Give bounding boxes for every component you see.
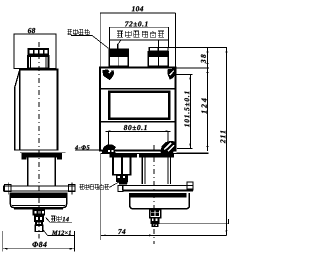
dim phi84 left extension line: [2, 231, 4, 252]
side view flange left bolt line: [7, 182, 9, 194]
dim 74 text: [118, 229, 125, 234]
right flange right tab: [187, 182, 193, 189]
dim 38 line: [207, 48, 209, 69]
right terminal inner line: [157, 56, 159, 66]
display window: [109, 92, 169, 119]
dim 101.5 bottom leader: [177, 148, 192, 150]
knob body bottom: [112, 174, 132, 176]
side view fitting mid white slots: [36, 217, 42, 220]
side view plate left end cap: [22, 153, 27, 159]
side view plate right end cap: [57, 153, 62, 159]
dim 38 arrows: [207, 48, 209, 53]
mounting hole arrow bottom-right: [161, 141, 176, 153]
74 extension line (case left edge extended): [100, 153, 102, 240]
dim 80 extension lines: [107, 131, 109, 144]
right terminal cap divider: [157, 48, 159, 52]
dim 80 line: [106, 130, 171, 132]
main column left wall outer: [141, 158, 143, 184]
side view housing black top band: [10, 193, 67, 198]
dim 104 text: [132, 6, 143, 11]
main column left wall inner: [144, 158, 146, 184]
dim phi84 line: [3, 248, 75, 250]
side view fitting hex head: [33, 209, 45, 215]
side view body right edge: [57, 70, 59, 151]
side view terminal screws (white squares): [30, 50, 48, 53]
dim phi84 text: [32, 242, 46, 247]
side view mounting plate top line: [20, 151, 66, 153]
fitting leader to 211: [159, 219, 228, 224]
right fitting hex: [150, 210, 161, 218]
hole bottom-left white dots: [108, 150, 114, 152]
mounting hole arrow top-left: [103, 69, 115, 80]
left terminal block black band: [109, 48, 130, 56]
top leader for 38 and 211: [165, 47, 227, 49]
leader from label box to rod: [118, 40, 121, 45]
dim 124 line: [207, 68, 209, 151]
side view flange right bolt line: [71, 182, 73, 194]
left terminal inner line: [118, 56, 120, 66]
right fitting mid: [151, 217, 160, 224]
side view fitting collar white dots: [37, 223, 41, 225]
label 4-phi5 leader: [75, 149, 107, 151]
side view housing bottom closing line: [14, 208, 63, 210]
dim 80 arrows: [106, 130, 111, 132]
side view body chamfer top-left: [15, 70, 20, 88]
label 对边14 underline and leader: [46, 218, 72, 223]
right terminal block black band: [148, 51, 170, 56]
right fitting hex black marks: [151, 210, 159, 216]
label M12x1 text: [52, 231, 71, 235]
main column right wall inner: [167, 158, 169, 184]
dim 72 left extension stub: [109, 40, 111, 48]
knob body left wall: [112, 158, 114, 175]
dim 72 text: [125, 21, 147, 26]
right terminal block lower body: [148, 56, 168, 66]
side view centerline: [38, 42, 40, 239]
side view neck left wall: [27, 158, 29, 187]
knob tip: [119, 182, 128, 184]
dim 124 top arrow: [207, 68, 209, 73]
side view mounting plate black band: [22, 153, 63, 157]
side view flange plate: [4, 186, 76, 191]
label box 设定值调节杆: [110, 27, 169, 40]
side view diaphragm housing: [10, 193, 66, 208]
dim 211 text rotated: [220, 131, 225, 143]
side view terminal inner wall lines: [30, 56, 32, 69]
knob body right wall: [130, 158, 132, 175]
side view body inner left line: [19, 71, 21, 150]
knob mounting plate black: [110, 153, 138, 157]
side view fitting lower collar: [35, 222, 43, 225]
right housing body: [130, 193, 190, 209]
mounting hole arrow top-right: [167, 69, 175, 80]
label 对边14 pseudo text: [51, 216, 61, 221]
side view terminal block lower body: [28, 56, 49, 69]
dim 124 bottom leader: [177, 152, 209, 154]
label 4-phi5 text: [75, 145, 90, 149]
side view neck right wall: [54, 158, 56, 187]
side view flange left tab: [5, 185, 11, 192]
label M12x1 underline leader: [43, 230, 74, 235]
case horizontal line upper: [99, 88, 177, 90]
knob body center slot: [121, 158, 123, 175]
case outline: [100, 68, 176, 151]
main column centerline: [153, 145, 155, 244]
side view upper outline box: [14, 34, 56, 69]
hole top-right white slashes: [169, 70, 174, 75]
hole bottom-right white slashes: [164, 143, 175, 152]
knob knurled section: [116, 175, 128, 182]
right fitting tip white dots: [153, 225, 157, 227]
锁紧螺母 underline and leader: [71, 35, 108, 48]
left terminal block lower body: [109, 56, 128, 66]
dim 38 text rotated: [201, 54, 206, 63]
case-top leader for 38: [177, 67, 210, 69]
dim 101.5 arrows: [189, 75, 191, 80]
dim 124 text rotated: [201, 98, 206, 113]
label pseudo text shedingzhi: [117, 31, 164, 37]
main column right wall outer: [170, 158, 172, 184]
dim phi84 right extension line: [74, 231, 76, 252]
right terminal rod: [157, 40, 159, 48]
label 切换差调节钮 pseudo text: [80, 184, 109, 189]
切换差调节钮 leader: [109, 182, 120, 188]
label 锁紧螺母 pseudo text: [67, 29, 89, 34]
plate top thin line: [101, 152, 209, 154]
right terminal cap: [149, 48, 168, 52]
side view fitting thread shank: [35, 225, 43, 231]
right flange body: [122, 185, 193, 190]
dimension 68 text: [28, 28, 35, 33]
dim 74 arrows: [101, 235, 106, 237]
dim 124 bottom arrow: [207, 146, 209, 151]
right flange left tab: [118, 185, 123, 191]
right housing black top band: [129, 193, 187, 197]
right fitting mid white slots: [152, 218, 158, 221]
dimension 68 line: [14, 33, 56, 35]
main column mounting plate black: [139, 153, 174, 157]
knob knurled white slots: [118, 176, 126, 178]
dim phi84 arrows: [3, 248, 8, 250]
dim 80 text: [124, 125, 147, 130]
side view fitting mid section: [34, 216, 44, 222]
side view main body top edge: [19, 68, 59, 70]
dim 211 arrows: [226, 48, 228, 53]
dim 104 left extension: [99, 13, 101, 67]
side view fitting hex head white slots: [35, 211, 44, 214]
dim 104 line: [100, 12, 175, 14]
dim 211 line: [226, 48, 228, 236]
side view terminal block black band: [28, 48, 50, 56]
mounting hole arrow bottom-left: [102, 144, 116, 153]
dim 74 line: [101, 234, 227, 236]
case horizontal line lower: [99, 121, 177, 123]
dim 72 right extension stub: [168, 40, 170, 48]
right fitting tip: [152, 224, 159, 227]
right housing bottom thick line: [133, 208, 186, 210]
side view body bottom edge: [15, 149, 59, 151]
side view body outer left edge: [14, 87, 16, 151]
dim 101.5 top leader: [177, 74, 193, 76]
right flange bottom thick line: [122, 190, 193, 192]
side view flange right tab: [69, 185, 75, 192]
dim 101.5 text rotated: [184, 92, 189, 127]
dim 104 right extension: [175, 13, 177, 67]
dim 101.5 line: [189, 75, 191, 149]
left terminal rod: [117, 44, 119, 48]
side view housing inner bottom line: [12, 204, 65, 206]
hole top-left white notch: [109, 70, 112, 73]
